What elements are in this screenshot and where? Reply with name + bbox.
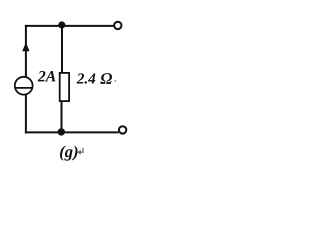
label 2A: [38, 71, 56, 81]
return mark stroke: [80, 148, 83, 152]
label ohm symbol: [100, 73, 112, 84]
caption (g): [60, 146, 77, 161]
current direction arrow: [22, 43, 29, 52]
wire middle vertical upper: [61, 25, 63, 73]
wire left vertical upper: [25, 25, 27, 77]
wire middle vertical lower: [61, 101, 63, 132]
faint period after ohm: [114, 80, 116, 82]
current source I1 circle: [15, 77, 33, 95]
current source chord: [14, 87, 33, 89]
wire bottom horizontal: [25, 131, 119, 133]
label value 2.4: [77, 73, 96, 83]
node junction top: [58, 21, 65, 28]
node junction bottom: [58, 128, 65, 135]
wire top horizontal: [25, 25, 114, 27]
terminal top-right: [114, 22, 121, 29]
return mark arrowhead: [77, 150, 81, 155]
wire left vertical lower: [25, 95, 27, 133]
terminal bottom-right: [119, 126, 126, 133]
resistor R 2.4 ohm body: [60, 73, 69, 101]
